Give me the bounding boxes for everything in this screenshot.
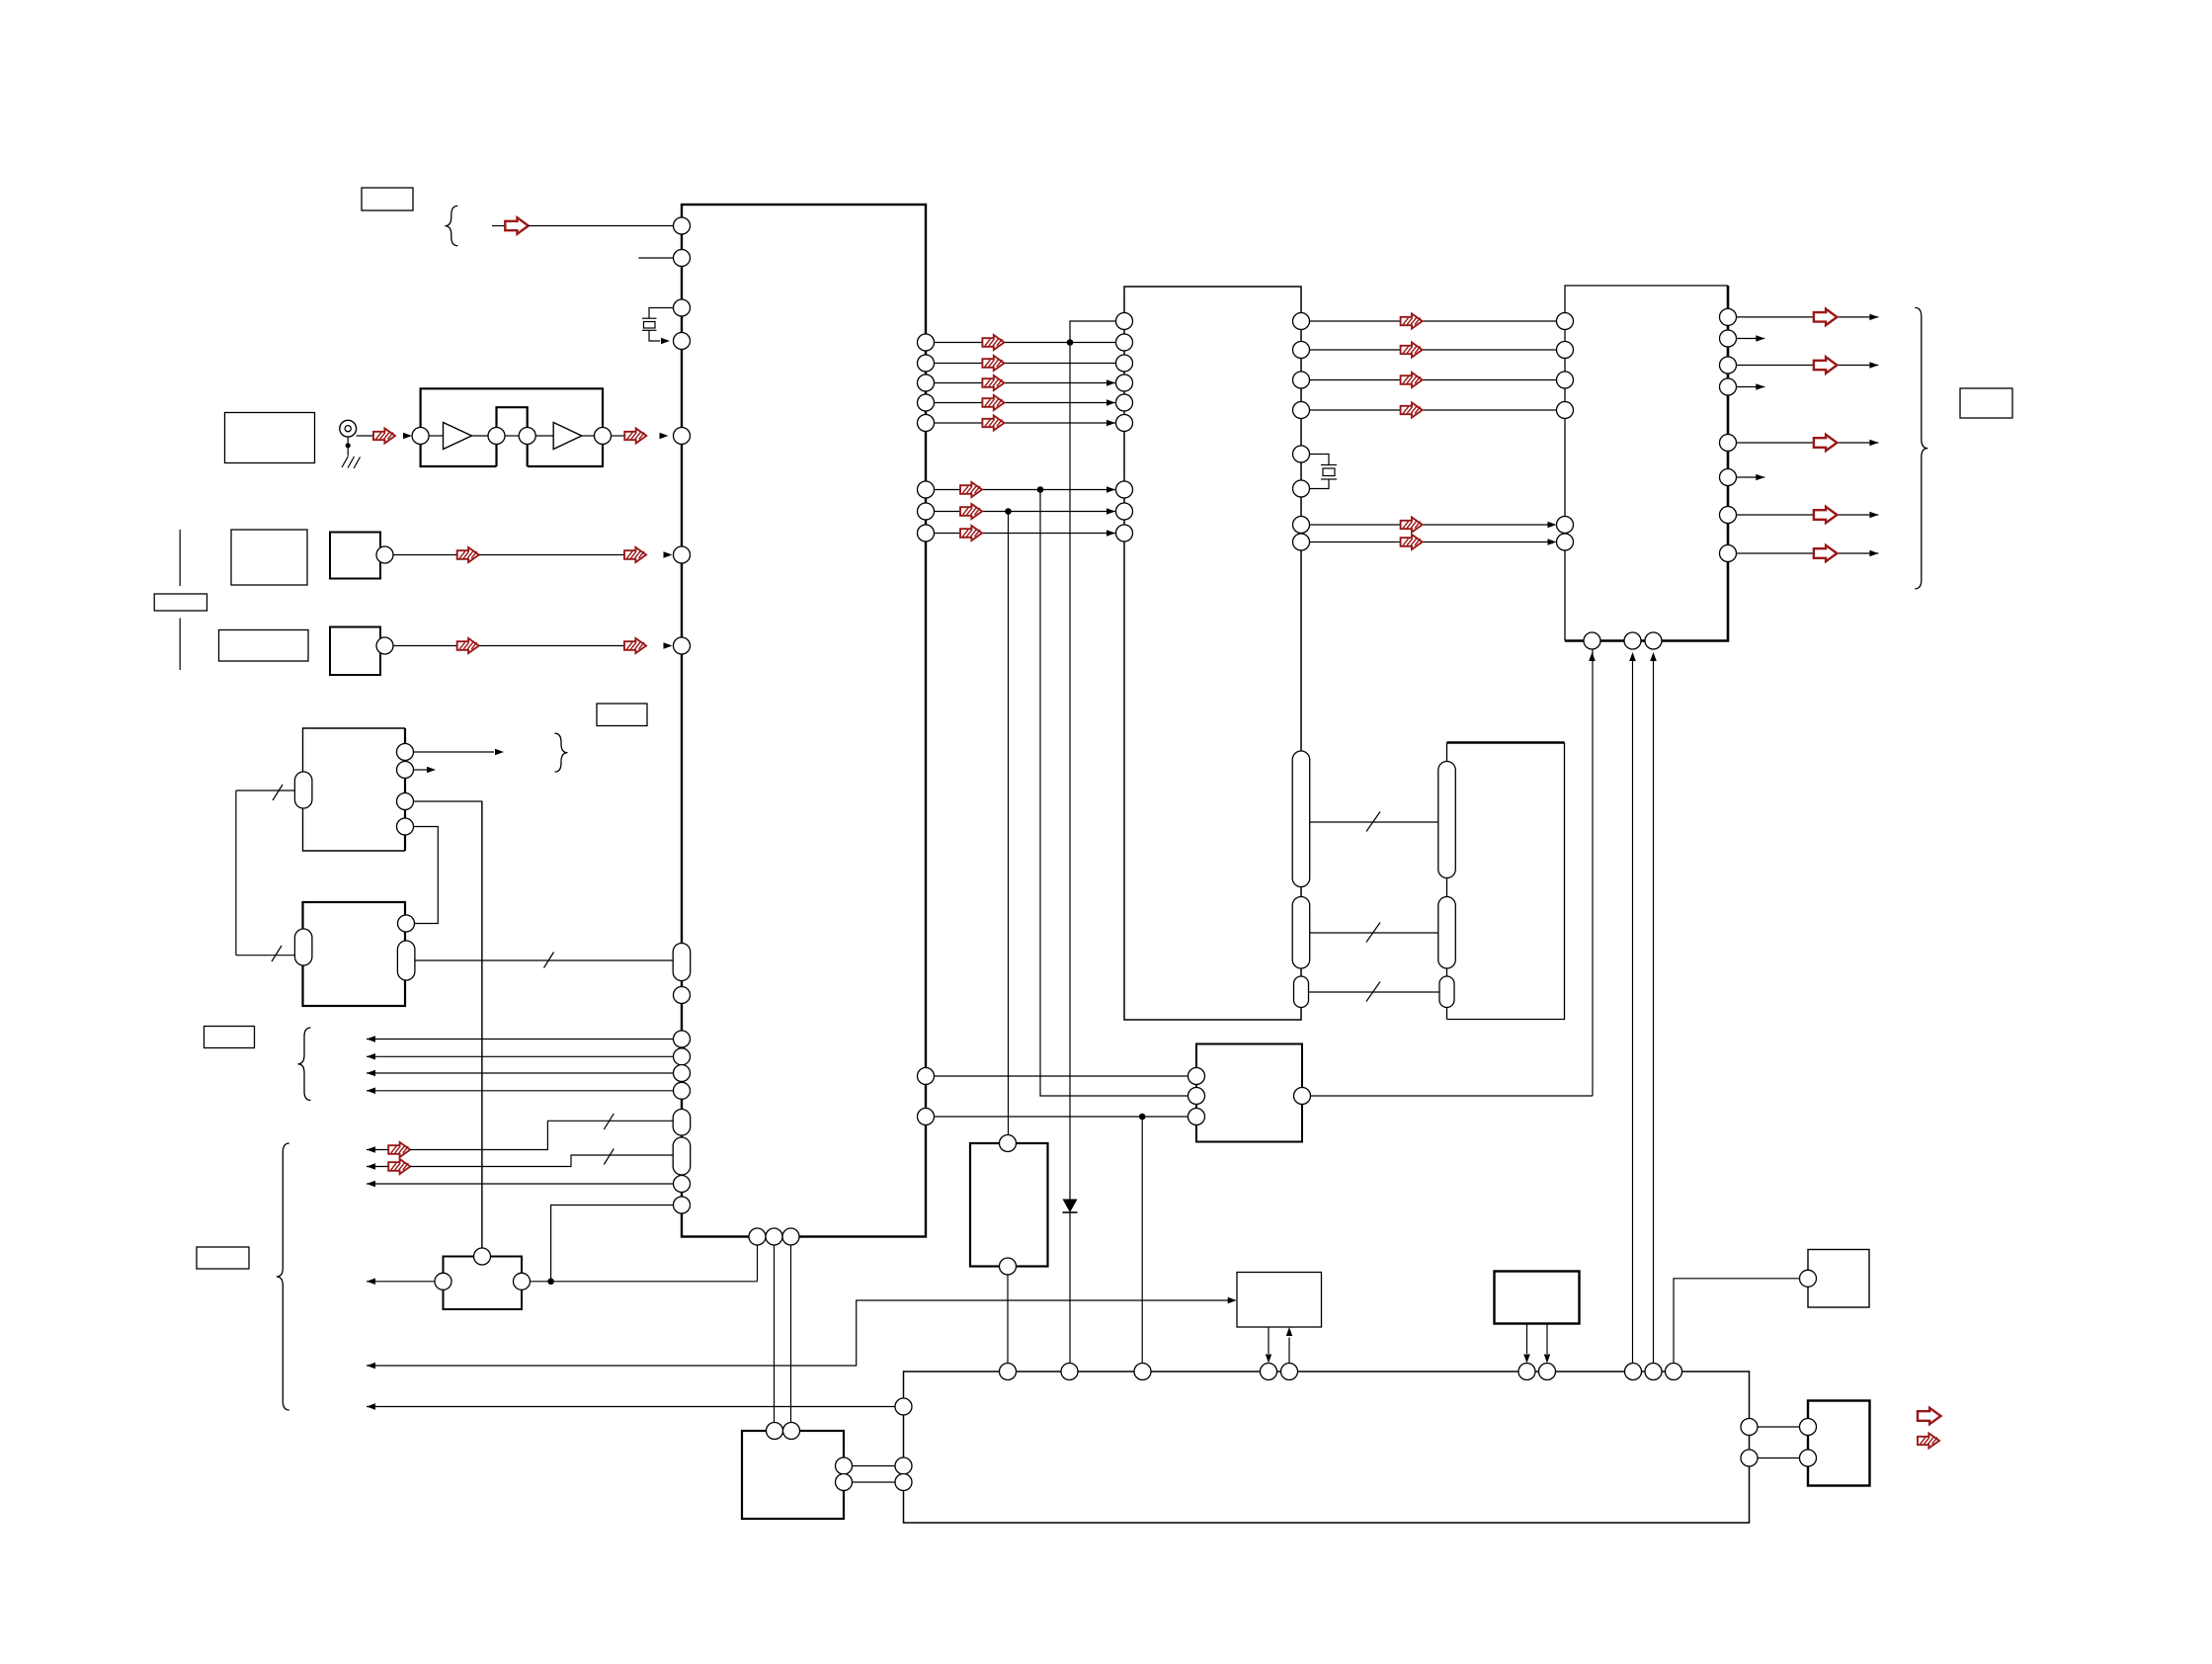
wire M1 loop lower — [236, 955, 295, 957]
arrowhead S2 to IC1 — [664, 642, 673, 649]
arrowhead ctrl row3 — [367, 1181, 375, 1187]
IC3 right pin O5 — [1720, 469, 1737, 486]
U8 top pin data1 — [1625, 1364, 1642, 1380]
IC1 right pin C0 — [918, 481, 935, 498]
IC1 right pin servo1 — [918, 1068, 935, 1085]
wire power row2 — [367, 1406, 895, 1408]
wire IC1 bottom2 to U7 — [774, 1245, 776, 1423]
buffer mid pin a — [488, 428, 505, 445]
arrowhead power row1 — [367, 1363, 375, 1369]
signal arrow A1 — [1401, 343, 1423, 358]
arrowhead M1 out1 — [495, 749, 504, 755]
signal arrow D0 — [982, 335, 1004, 350]
M2 mechanism block lower — [303, 902, 406, 1006]
signal arrow O7 — [1814, 545, 1838, 561]
IC3 bottom pin3 — [1645, 632, 1662, 649]
wire U5 to U8 — [1007, 1275, 1009, 1364]
signal arrow B0 — [1401, 518, 1423, 533]
IC1 pin EFM — [674, 428, 691, 445]
buffer amp A1 — [444, 423, 472, 450]
arrowhead C2 at IC2 — [1106, 530, 1115, 537]
U8 right pin1 — [1741, 1419, 1758, 1436]
signal arrow S1 b — [624, 547, 646, 562]
U7 top pin1 — [767, 1423, 783, 1440]
IC2 right bus pill3 — [1294, 976, 1309, 1008]
signal arrow out hatch — [1918, 1434, 1939, 1449]
wire A3 IC2 to IC3 — [1310, 409, 1557, 411]
wire M2 bus to IC1 — [415, 959, 673, 961]
U8 top pin boxA2 — [1281, 1364, 1298, 1380]
signal arrow A0 — [1401, 314, 1423, 329]
arrowhead D2 at IC2 — [1106, 379, 1115, 386]
buffer out pin — [595, 428, 612, 445]
IC3 right pin O6 — [1720, 507, 1737, 524]
bus wire IC2-RAM 2 — [1310, 932, 1438, 934]
wire boxA arrow down — [1268, 1327, 1270, 1354]
wire M1 out2 — [414, 769, 428, 771]
wire output O5 — [1737, 476, 1765, 478]
arrowhead ctrl row1 — [367, 1146, 375, 1153]
signal arrow D2 — [982, 375, 1004, 390]
wire output O7 — [1737, 552, 1879, 554]
U8 top pin data3 — [1666, 1364, 1682, 1380]
wire output O6 — [1737, 514, 1879, 516]
IC1 pin S1 — [674, 546, 691, 563]
wire D3 IC1 to IC2 — [935, 402, 1116, 404]
IC2 digital signal processor block — [1124, 287, 1301, 1020]
U10 control box B — [1495, 1272, 1580, 1324]
IC3 left pin B0 — [1557, 517, 1574, 534]
wire M1 loop vertical — [235, 790, 237, 956]
IC1 pin stub — [674, 250, 691, 267]
wire IC3 bottom2 vertical — [1632, 659, 1634, 1364]
U8 left pin b — [895, 1474, 912, 1491]
IC1 pin input 1 — [674, 1031, 691, 1047]
arrowhead input row 4 — [367, 1088, 375, 1095]
X1 buffer enclosure outline — [421, 388, 603, 466]
wire buffer1 out — [472, 435, 489, 437]
wire output O3 — [1737, 386, 1765, 388]
IC1 right pin servo2 — [918, 1109, 935, 1125]
signal arrow EFM — [624, 429, 646, 444]
bus wire IC2-RAM 1 — [1310, 821, 1438, 823]
brace top-left input — [445, 206, 457, 245]
wire power row1 — [367, 1300, 1228, 1366]
IC1 pin S2 — [674, 637, 691, 654]
arrowhead D3 at IC2 — [1106, 399, 1115, 406]
signal arrow ctrl row1 — [388, 1142, 410, 1157]
wire boxA arrow up — [1288, 1338, 1290, 1364]
wire ctrl row3 — [367, 1183, 674, 1185]
IC2 left pin D3 — [1116, 394, 1133, 411]
IC2 left pin top — [1116, 313, 1133, 330]
signal arrow A2 — [1401, 373, 1423, 387]
wire boxB arrow down2 — [1546, 1324, 1548, 1355]
U4 servo block — [1196, 1044, 1302, 1142]
junction dot C0 branch — [1037, 486, 1044, 493]
M2 pin in — [398, 915, 415, 932]
wire input row 2 — [367, 1055, 674, 1057]
arrowhead boxA up — [1286, 1327, 1292, 1336]
arrowhead into buffer — [403, 433, 412, 439]
slash ctrl bus2 — [604, 1149, 614, 1165]
signal arrow S2 a — [457, 638, 479, 653]
S2 switch block — [330, 627, 380, 676]
signal arrow out plain — [1918, 1408, 1941, 1424]
wire input row 4 — [367, 1090, 674, 1092]
signal arrow D3 — [982, 395, 1004, 410]
M1 left bus pill — [294, 772, 312, 808]
label box jack group — [225, 413, 315, 463]
IC1 right pin D1 — [918, 355, 935, 372]
S3 top pin — [474, 1248, 491, 1265]
U5 regulator block — [970, 1143, 1048, 1267]
IC2 left pin C1 — [1116, 503, 1133, 520]
wire IC3 bottom3 vertical — [1653, 659, 1655, 1364]
U7 interface block — [742, 1431, 844, 1519]
U8 top pin clock — [1061, 1364, 1078, 1380]
arrowhead boxA down — [1266, 1355, 1271, 1364]
U12 aux block right — [1808, 1250, 1869, 1308]
S3 reset switch block — [444, 1257, 523, 1310]
IC1 pin xtal2 — [674, 333, 691, 350]
IC1 pin RF — [674, 217, 691, 234]
signal arrow after jack — [373, 429, 395, 444]
ground symbol — [342, 457, 349, 468]
arrowhead ctrl row2 — [367, 1163, 375, 1170]
IC1 pin input 2 — [674, 1048, 691, 1065]
U11 output connector block — [1808, 1401, 1870, 1486]
wire D0 IC1 to IC2 — [935, 342, 1116, 344]
wire reset up to IC1 — [757, 1245, 759, 1282]
IC2 left pin D0 — [1116, 334, 1133, 351]
IC3 left pin A3 — [1557, 402, 1574, 419]
arrowhead boxB down2 — [1544, 1355, 1550, 1364]
arrowhead up into IC3 pin1 — [1589, 652, 1596, 661]
IC1 pin xtal1 — [674, 299, 691, 316]
X1 buffer enclosure bridge — [497, 407, 528, 466]
wire servo3 branch down — [1141, 1117, 1143, 1364]
wire output O1 — [1737, 338, 1765, 340]
wire ctrl row1 step — [410, 1121, 673, 1149]
S1 switch block — [330, 533, 380, 579]
IC2 left pin D1 — [1116, 355, 1133, 372]
U8 top pin boxB1 — [1518, 1364, 1535, 1380]
IC1 system controller main block — [682, 205, 926, 1237]
U8 top pin U5net — [1000, 1364, 1017, 1380]
crystal X3 at IC2 — [1310, 455, 1330, 465]
wire boxB arrow down1 — [1526, 1324, 1528, 1355]
slash M2 bus — [544, 953, 554, 968]
arrowhead B0 at IC3 — [1548, 522, 1557, 528]
wire jack out — [357, 435, 373, 437]
wire ctrl row2 — [367, 1166, 388, 1168]
RAM left bus pill3 — [1439, 976, 1454, 1008]
U11 left pin1 — [1800, 1419, 1817, 1436]
U11 left pin2 — [1800, 1450, 1817, 1466]
U12 left pin — [1800, 1270, 1817, 1287]
wire U7-U8 a — [853, 1465, 896, 1467]
IC2 right pin A2 — [1293, 372, 1310, 388]
wire between mid pins — [505, 435, 519, 437]
label box input group — [205, 1027, 255, 1048]
battery line upper — [179, 530, 181, 586]
jack ground stem — [347, 437, 349, 456]
signal arrow RF in — [505, 217, 529, 234]
M2 left bus pill — [294, 929, 312, 965]
wire S3 out — [531, 1281, 758, 1283]
wire stub RF input — [492, 225, 505, 227]
arrowhead C0 at IC2 — [1106, 486, 1115, 493]
arrowhead crystal to pin — [661, 338, 670, 344]
brace control group big — [277, 1143, 289, 1410]
arrowhead power row1 to boxA — [1228, 1297, 1237, 1303]
wire servo out — [1311, 1095, 1594, 1097]
junction dot jack — [346, 443, 351, 448]
signal arrow O4 — [1814, 435, 1838, 451]
U6 RAM block — [1447, 743, 1565, 1020]
slash bus2 — [1366, 923, 1380, 943]
wire output O2 — [1737, 365, 1879, 367]
RAM left bus pill1 — [1438, 762, 1456, 878]
arrowhead input row 2 — [367, 1053, 375, 1060]
wire to buffer1 — [429, 435, 443, 437]
IC2 pin xtal2 — [1293, 480, 1310, 497]
label box S2 group — [219, 630, 309, 662]
arrowhead C1 at IC2 — [1106, 508, 1115, 515]
S3 right pin — [514, 1273, 531, 1290]
U8 right pin2 — [1741, 1450, 1758, 1466]
arrowhead input row 1 — [367, 1036, 375, 1042]
S3 left pin — [435, 1273, 451, 1290]
M1 pin out3 — [397, 793, 414, 810]
signal arrow O0 — [1814, 309, 1838, 326]
U7 right pin2 — [836, 1474, 853, 1491]
M2 right bus pill — [397, 941, 415, 980]
wire C1 branch to U5 — [1008, 512, 1010, 1135]
IC3 left pin A2 — [1557, 372, 1574, 388]
wire C0 IC1 to IC2 — [935, 489, 1116, 491]
U5 bottom pin — [1000, 1258, 1017, 1275]
arrowhead up into IC3 pin2 — [1629, 652, 1636, 661]
wire S2 row — [393, 645, 457, 647]
U7 right pin1 — [836, 1457, 853, 1474]
diode D1 — [1063, 1200, 1078, 1213]
wire reset row — [367, 1281, 435, 1283]
arrowhead O0 — [1869, 314, 1878, 321]
IC1 pin ctrl3 — [674, 1176, 691, 1193]
junction dot C1 branch — [1005, 508, 1012, 515]
IC1 pin input 3 — [674, 1065, 691, 1082]
signal arrow B1 — [1401, 535, 1423, 549]
wire M1 loop upper — [236, 790, 295, 791]
wire buffer to arrow — [612, 435, 625, 437]
IC1 right pin D2 — [918, 374, 935, 391]
signal arrow C1 — [960, 504, 982, 519]
arrowhead O1 — [1756, 335, 1764, 342]
wire stub pin2 — [638, 257, 673, 259]
IC2 right pin B0 — [1293, 517, 1310, 534]
signal arrow S2 b — [624, 638, 646, 653]
brace input group — [298, 1028, 311, 1101]
wire clock net vertical upper — [1069, 343, 1071, 1200]
wire to buffer2 — [535, 435, 553, 437]
IC3 right pin O4 — [1720, 435, 1737, 452]
arrowhead O2 — [1869, 362, 1878, 369]
slash M1 bus upper — [273, 785, 283, 800]
label box battery — [154, 594, 206, 611]
arrowhead M1 out2 — [427, 767, 436, 773]
wire ctrl4 branch — [551, 1206, 674, 1282]
arrowhead D4 at IC2 — [1106, 420, 1115, 426]
signal arrow S1 a — [457, 547, 479, 562]
U8 top pin servo — [1134, 1364, 1151, 1380]
arrowhead input row 3 — [367, 1070, 375, 1076]
crystal X2 at IC1 — [649, 308, 674, 319]
U5 top pin — [1000, 1135, 1017, 1152]
wire A0 IC2 to IC3 — [1310, 320, 1557, 322]
buffer mid pin b — [519, 428, 535, 445]
wire ctrl row1 — [367, 1149, 388, 1151]
servo right pin — [1294, 1088, 1311, 1105]
U8 top pin data2 — [1645, 1364, 1662, 1380]
arrowhead B1 at IC3 — [1548, 539, 1557, 545]
junction dot reset — [547, 1279, 554, 1286]
S2 right pin — [376, 637, 393, 654]
wire D1 IC1 to IC2 — [935, 363, 1116, 365]
wire U8-U11 a — [1758, 1426, 1800, 1428]
IC1 bus pill ctrl2 — [673, 1137, 691, 1175]
M1 pin out1 — [397, 744, 414, 761]
wire output O0 — [1737, 316, 1879, 318]
IC3 bottom pin1 — [1584, 632, 1600, 649]
wire ctrl row2 step — [410, 1155, 673, 1167]
M1 mechanism block upper — [303, 728, 406, 851]
wire clock branch up — [1070, 321, 1116, 343]
signal arrow C0 — [960, 482, 982, 497]
IC2 right pin A0 — [1293, 313, 1310, 330]
wire U8-U11 b — [1758, 1457, 1800, 1459]
wire C2 IC1 to IC2 — [935, 533, 1116, 535]
IC1 pin nc — [674, 987, 691, 1004]
signal arrow A3 — [1401, 403, 1423, 418]
wire C1 IC1 to IC2 — [935, 511, 1116, 513]
M1 pin out4 — [397, 818, 414, 835]
IC3 right pin O0 — [1720, 308, 1737, 325]
IC2 left pin C2 — [1116, 525, 1133, 541]
brace mech outputs — [555, 733, 568, 772]
IC3 left pin A1 — [1557, 342, 1574, 359]
wire B1 IC2 to IC3 — [1310, 541, 1549, 543]
wire A1 IC2 to IC3 — [1310, 349, 1557, 351]
IC1 bus pill ctrl1 — [673, 1110, 691, 1136]
wire B0 IC2 to IC3 — [1310, 524, 1549, 526]
slash M1 bus lower — [272, 946, 282, 961]
RAM left bus pill2 — [1438, 897, 1456, 969]
arrowhead O6 — [1869, 512, 1878, 518]
battery line lower — [179, 619, 181, 671]
wire RF in to IC1 — [529, 225, 674, 227]
wire IC1 bottom3 to U7 — [790, 1245, 792, 1423]
label box control group — [197, 1247, 249, 1269]
U8 top pin boxB2 — [1539, 1364, 1556, 1380]
label box line outputs — [1960, 388, 2012, 418]
IC1 bottom pin3 — [782, 1228, 799, 1245]
IC3 right pin O7 — [1720, 545, 1737, 562]
wire M1 out4 to M2 — [414, 827, 439, 924]
U9 control box A — [1237, 1273, 1322, 1328]
IC1 right pin C2 — [918, 525, 935, 541]
arrowhead S1 to IC1 — [664, 551, 673, 558]
IC2 left pin D4 — [1116, 415, 1133, 432]
IC1 right pin D0 — [918, 334, 935, 351]
wire M1 out3 to S3 — [414, 801, 482, 1248]
IC2 left pin D2 — [1116, 374, 1133, 391]
servo left pin2 — [1188, 1088, 1205, 1105]
U8 top pin boxA1 — [1261, 1364, 1277, 1380]
label box S1 group — [231, 530, 307, 585]
wire servo row1 — [935, 1075, 1188, 1077]
arrowhead O4 — [1869, 440, 1878, 446]
wire clock net vertical lower — [1069, 1212, 1071, 1364]
wire input row 3 — [367, 1072, 674, 1074]
wire IC3 bottom1 vertical — [1592, 649, 1594, 1096]
IC2 right bus pill1 — [1292, 751, 1310, 887]
IC3 left pin A0 — [1557, 313, 1574, 330]
arrowhead O5 — [1756, 474, 1764, 480]
signal arrow C2 — [960, 526, 982, 541]
IC2 left pin C0 — [1116, 481, 1133, 498]
IC2 right pin A1 — [1293, 342, 1310, 359]
arrowhead O7 — [1869, 550, 1878, 556]
arrowhead power row2 — [367, 1403, 375, 1410]
slash ctrl bus1 — [604, 1114, 614, 1129]
signal arrow ctrl row2 — [388, 1159, 410, 1174]
signal arrow D1 — [982, 356, 1004, 371]
wire M1 out1 — [414, 751, 495, 753]
IC3 bottom pin2 — [1624, 632, 1641, 649]
signal arrow O2 — [1814, 357, 1838, 374]
wire U7-U8 b — [853, 1481, 896, 1483]
wire U12 to U8 — [1674, 1279, 1800, 1364]
slash bus3 — [1366, 982, 1380, 1002]
IC3 right pin O2 — [1720, 357, 1737, 374]
wire A2 IC2 to IC3 — [1310, 379, 1557, 381]
wire S3 top up — [481, 801, 483, 1248]
IC3 right pin O3 — [1720, 378, 1737, 395]
wire input row 1 — [367, 1039, 674, 1040]
IC1 bottom pin1 — [749, 1228, 766, 1245]
wire servo row3 — [935, 1116, 1188, 1118]
IC1 left bus pill — [673, 944, 691, 981]
phono jack J1 — [340, 420, 357, 437]
wire D4 IC1 to IC2 — [935, 422, 1116, 424]
wire buffer2 out — [582, 435, 595, 437]
IC2 pin xtal1 — [1293, 446, 1310, 462]
bus wire IC2-RAM 3 — [1309, 991, 1440, 993]
IC1 right pin C1 — [918, 503, 935, 520]
buffer in pin — [412, 428, 429, 445]
junction dot clock net — [1067, 339, 1074, 346]
label box mech outputs — [597, 704, 647, 726]
slash bus1 — [1366, 812, 1380, 832]
S1 right pin — [376, 546, 393, 563]
signal arrow O6 — [1814, 507, 1838, 523]
wire D2 IC1 to IC2 — [935, 382, 1116, 384]
U7 top pin2 — [783, 1423, 800, 1440]
IC1 bottom pin2 — [766, 1228, 782, 1245]
arrowhead up into IC3 pin3 — [1650, 652, 1657, 661]
